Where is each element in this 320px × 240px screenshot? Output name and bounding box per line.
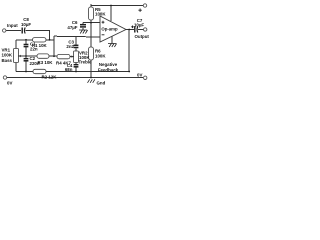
svg-text:100K: 100K (95, 12, 106, 17)
svg-text:Gnd: Gnd (97, 81, 106, 86)
svg-text:10µF: 10µF (134, 23, 144, 28)
svg-text:0V: 0V (7, 81, 12, 86)
svg-text:Bass: Bass (2, 58, 13, 63)
svg-text:0V: 0V (137, 73, 142, 78)
svg-text:68n: 68n (65, 67, 73, 72)
svg-text:Feedback: Feedback (98, 67, 119, 72)
svg-text:Input: Input (7, 23, 18, 28)
svg-text:47µF: 47µF (67, 25, 77, 30)
svg-text:Output: Output (135, 34, 150, 39)
svg-text:100K: 100K (2, 53, 13, 58)
svg-text:Op-amp: Op-amp (101, 27, 118, 32)
svg-text:100K: 100K (95, 53, 106, 58)
svg-text:R2 12K: R2 12K (42, 74, 58, 79)
svg-text:22n: 22n (30, 47, 38, 52)
svg-text:R3 10K: R3 10K (38, 60, 54, 65)
svg-text:Treble: Treble (79, 60, 92, 65)
svg-text:10µF: 10µF (21, 22, 31, 27)
svg-text:2n2: 2n2 (66, 44, 74, 49)
